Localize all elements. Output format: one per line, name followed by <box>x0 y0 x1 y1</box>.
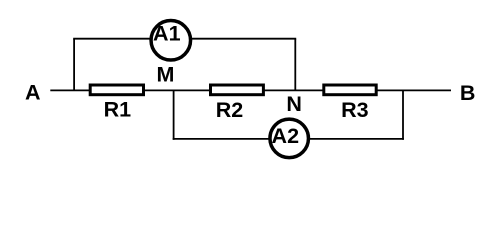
svg-text:N: N <box>286 92 302 116</box>
wire: bottom branch horizontal, right of A2 <box>309 138 404 140</box>
ammeter A2 <box>270 119 309 158</box>
svg-text:A: A <box>25 81 41 105</box>
wire A to R1 (through top-branch junction) <box>50 89 90 91</box>
wire R1 to R2 through node M <box>144 89 211 91</box>
wire: top branch horizontal, left of A1 <box>73 38 151 40</box>
svg-text:R3: R3 <box>341 98 369 122</box>
resistor R1 <box>90 85 143 95</box>
wire R2 to R3 through node N <box>264 89 324 91</box>
wire: top branch left riser <box>73 39 75 91</box>
svg-text:B: B <box>460 81 476 105</box>
wire: bottom branch riser from node M <box>173 90 175 139</box>
svg-text:M: M <box>157 63 175 87</box>
wire R3 to B (through bottom-branch junction) <box>377 89 451 91</box>
svg-text:A2: A2 <box>272 124 300 148</box>
wire: bottom branch horizontal, left of A2 <box>173 138 270 140</box>
ammeter A1 <box>151 21 191 61</box>
svg-text:A1: A1 <box>153 22 181 46</box>
resistor R3 <box>324 85 376 95</box>
wire: top branch horizontal, right of A1 <box>191 38 296 40</box>
svg-text:R1: R1 <box>104 98 132 122</box>
resistor R2 <box>211 85 264 95</box>
svg-text:R2: R2 <box>216 98 244 122</box>
wire: bottom branch right riser up to main wire <box>402 90 404 139</box>
wire: top branch right riser down to node N <box>294 39 296 91</box>
